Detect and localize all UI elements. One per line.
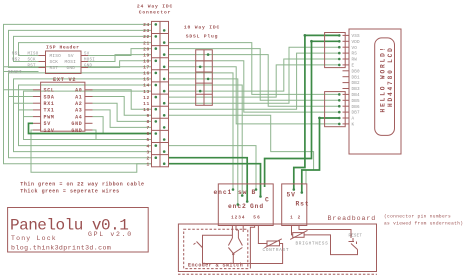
svg-text:PWM: PWM <box>44 114 55 120</box>
svg-text:ISP Header: ISP Header <box>46 45 80 51</box>
svg-text:RESET: RESET <box>349 235 363 239</box>
svg-text:HELLO WORLD!: HELLO WORLD! <box>379 46 386 113</box>
svg-text:SCK: SCK <box>28 59 37 63</box>
svg-text:GPL v2.0: GPL v2.0 <box>88 231 133 238</box>
svg-text:enc1: enc1 <box>214 189 233 196</box>
svg-text:Connector: Connector <box>139 10 172 16</box>
svg-text:5V: 5V <box>44 121 51 127</box>
svg-text:GND: GND <box>84 65 93 69</box>
svg-text:Thin green = on 22 way ribbon: Thin green = on 22 way ribbon cable <box>20 181 144 187</box>
svg-text:CONTRAST: CONTRAST <box>263 248 290 253</box>
svg-text:C: C <box>265 197 270 204</box>
svg-text:GND: GND <box>67 66 76 71</box>
svg-text:1: 1 <box>290 216 293 221</box>
svg-text:17: 17 <box>143 65 150 71</box>
svg-text:A0: A0 <box>75 88 82 94</box>
svg-text:12V: 12V <box>44 128 55 134</box>
svg-text:BRIGHTNESS: BRIGHTNESS <box>296 242 329 247</box>
svg-text:9: 9 <box>147 113 150 119</box>
svg-text:VO: VO <box>352 46 358 51</box>
svg-text:TX1: TX1 <box>44 108 55 114</box>
svg-text:1: 1 <box>147 161 150 167</box>
svg-text:MOSI: MOSI <box>65 60 77 65</box>
svg-text:3: 3 <box>147 149 150 155</box>
svg-text:DB0: DB0 <box>352 69 361 74</box>
svg-text:MISO: MISO <box>50 54 62 59</box>
svg-text:blog.think3dprint3d.com: blog.think3dprint3d.com <box>11 245 111 252</box>
svg-text:VDD: VDD <box>352 40 361 45</box>
svg-text:12: 12 <box>143 95 150 101</box>
svg-text:20: 20 <box>143 46 150 52</box>
svg-text:K: K <box>352 123 355 128</box>
svg-text:5V: 5V <box>287 192 296 199</box>
svg-text:7: 7 <box>147 125 150 131</box>
svg-text:DB3: DB3 <box>352 87 361 92</box>
svg-text:EXT V2: EXT V2 <box>53 77 76 83</box>
svg-text:RST: RST <box>28 65 37 69</box>
svg-text:19: 19 <box>143 52 150 58</box>
svg-text:MISO: MISO <box>28 53 39 57</box>
svg-text:RX1: RX1 <box>44 101 55 107</box>
svg-text:A: A <box>352 117 355 122</box>
svg-text:13: 13 <box>143 89 150 95</box>
svg-text:6: 6 <box>257 216 260 221</box>
svg-text:A3: A3 <box>75 108 82 114</box>
svg-text:2: 2 <box>235 216 238 221</box>
svg-text:16: 16 <box>143 71 150 77</box>
svg-text:RS: RS <box>352 52 358 57</box>
svg-text:Breadboard: Breadboard <box>328 215 377 222</box>
svg-text:21: 21 <box>143 40 150 46</box>
svg-text:RW: RW <box>352 58 358 63</box>
svg-text:DB4: DB4 <box>352 93 361 98</box>
svg-text:SCL: SCL <box>44 88 55 94</box>
svg-text:DB7: DB7 <box>352 111 361 116</box>
svg-text:8: 8 <box>147 119 150 125</box>
svg-text:4: 4 <box>242 216 245 221</box>
svg-text:23: 23 <box>143 28 150 34</box>
svg-text:HD44780 LCD: HD44780 LCD <box>387 46 394 107</box>
svg-text:Gnd: Gnd <box>250 203 264 210</box>
svg-text:N$2: N$2 <box>12 58 21 63</box>
svg-text:3: 3 <box>238 216 241 221</box>
svg-text:DB2: DB2 <box>352 81 361 86</box>
svg-text:VSS: VSS <box>352 34 361 39</box>
svg-text:2: 2 <box>298 216 301 221</box>
svg-text:14: 14 <box>143 83 150 89</box>
svg-text:RST: RST <box>50 66 59 71</box>
svg-text:2: 2 <box>147 155 150 161</box>
svg-text:Rst: Rst <box>296 201 310 208</box>
svg-text:as viewed from underneath): as viewed from underneath) <box>384 221 463 227</box>
svg-text:Tony Lock: Tony Lock <box>11 235 57 242</box>
svg-text:24: 24 <box>143 22 150 28</box>
svg-text:MOSI: MOSI <box>84 59 95 63</box>
svg-text:11: 11 <box>143 101 150 107</box>
svg-text:6: 6 <box>147 131 150 137</box>
svg-text:5: 5 <box>147 137 150 143</box>
svg-text:GND: GND <box>71 128 82 134</box>
svg-text:24 Way IDC: 24 Way IDC <box>137 4 173 10</box>
svg-text:GND: GND <box>71 121 82 127</box>
svg-text:5V: 5V <box>84 53 90 57</box>
svg-text:A2: A2 <box>75 101 82 107</box>
svg-text:1: 1 <box>231 216 234 221</box>
svg-text:Thick green = seperate wires: Thick green = seperate wires <box>20 189 119 195</box>
svg-text:4: 4 <box>147 143 150 149</box>
svg-text:10: 10 <box>143 107 150 113</box>
svg-text:DB6: DB6 <box>352 105 361 110</box>
svg-text:5V: 5V <box>68 54 74 59</box>
svg-text:SCK: SCK <box>50 60 59 65</box>
svg-text:RESET: RESET <box>8 71 22 75</box>
svg-text:DB5: DB5 <box>352 99 361 104</box>
svg-text:A4: A4 <box>75 114 82 120</box>
svg-text:SDA: SDA <box>44 94 55 100</box>
svg-text:15: 15 <box>143 77 150 83</box>
svg-text:DB1: DB1 <box>352 75 361 80</box>
svg-text:E: E <box>352 64 355 69</box>
svg-text:SDSL Plug: SDSL Plug <box>186 34 219 40</box>
svg-text:(connector pin numbers: (connector pin numbers <box>384 214 451 220</box>
svg-text:10 Way IDC: 10 Way IDC <box>184 25 220 31</box>
svg-text:18: 18 <box>143 59 150 65</box>
svg-text:5: 5 <box>253 216 256 221</box>
svg-text:A1: A1 <box>75 94 82 100</box>
svg-text:22: 22 <box>143 34 150 40</box>
svg-text:N$1: N$1 <box>12 52 21 57</box>
